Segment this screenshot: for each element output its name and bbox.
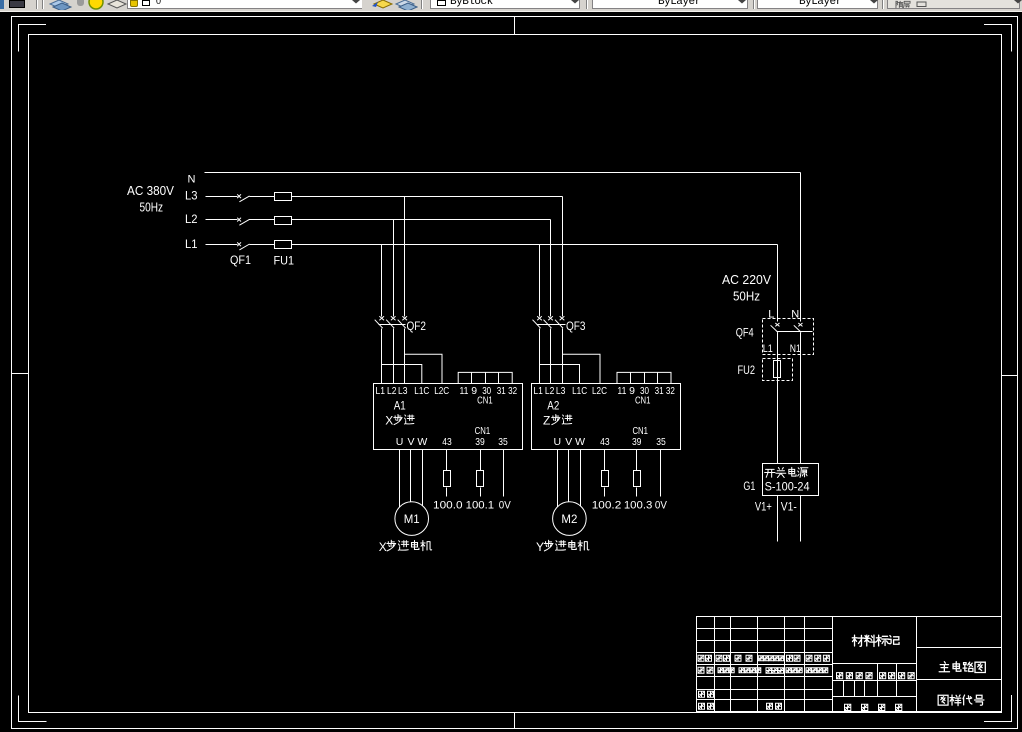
title block small row: 审核 (699, 691, 705, 697)
wire A2 pin 35 (660, 450, 662, 497)
svg-text:U: U (554, 436, 562, 448)
svg-text:M2: M2 (561, 514, 577, 526)
wire tap QF3 pole1 to A2 pin L1C (540, 365, 580, 384)
svg-text:43: 43 (600, 436, 610, 448)
wire L3 drop to QF2 pole 3 (404, 197, 406, 317)
svg-text:100.1: 100.1 (466, 499, 495, 511)
breaker QF3 (3-pole) (537, 316, 542, 320)
svg-text:X: X (385, 414, 393, 428)
svg-text:CN1: CN1 (477, 395, 493, 407)
svg-text:QF3: QF3 (566, 319, 586, 333)
svg-text:39: 39 (475, 436, 485, 448)
svg-text:N: N (188, 174, 196, 186)
wire L1 drop to QF4 (777, 245, 779, 322)
stepper drive A1 box (X axis) (374, 384, 523, 450)
svg-text:W: W (417, 436, 427, 448)
svg-text:FU1: FU1 (274, 254, 295, 268)
title block grid lines (697, 617, 1002, 713)
wire A2 V to motor M2 (568, 450, 570, 513)
svg-text:50Hz: 50Hz (733, 289, 760, 304)
svg-text:31: 31 (655, 385, 664, 397)
svg-text:M1: M1 (404, 514, 420, 526)
wire L2 with breaker QF1 pole and fuse FU1 (206, 219, 238, 221)
breaker QF4 linkage bar (777, 331, 813, 333)
wire L1 with breaker QF1 pole and fuse FU1 (206, 244, 238, 246)
svg-text:L1C: L1C (572, 385, 587, 397)
svg-text:L2C: L2C (434, 385, 449, 397)
centering tick left (12, 373, 29, 375)
wire L3 with breaker QF1 pole and fuse FU1 (206, 196, 238, 198)
svg-text:G1: G1 (743, 481, 755, 493)
svg-text:L2: L2 (387, 385, 397, 397)
svg-text:L1: L1 (376, 385, 386, 397)
title block outline (697, 617, 1002, 712)
svg-text:AC 220V: AC 220V (722, 272, 771, 287)
svg-text:V: V (565, 436, 572, 448)
wire A1 pin 39 with terminal (480, 450, 482, 471)
svg-text:CN1: CN1 (632, 425, 648, 437)
wire QF4 N1 down to G1 (800, 333, 802, 464)
wire tap QF2 pole1 to A1 pin L1C (382, 365, 422, 384)
svg-text:CN1: CN1 (635, 395, 651, 407)
switching power supply G1 box (763, 464, 819, 496)
svg-text:S-100-24: S-100-24 (765, 479, 810, 493)
svg-text:L1: L1 (185, 237, 198, 251)
svg-text:35: 35 (498, 436, 508, 448)
svg-text:L1: L1 (763, 343, 773, 355)
svg-text:32: 32 (666, 385, 675, 397)
svg-text:A1: A1 (394, 400, 406, 412)
title block labels 阶段标记 重量 比例 (837, 673, 843, 679)
wire L3 drop to QF3 pole 3 (562, 197, 564, 317)
svg-text:50Hz: 50Hz (140, 200, 164, 215)
svg-text:11: 11 (460, 385, 469, 397)
wire tap QF3 pole3 to A2 pin L2C (562, 354, 600, 383)
svg-text:QF1: QF1 (230, 253, 251, 267)
corner trim mark bottom-left (19, 696, 47, 722)
fuse FU2 element (774, 361, 781, 378)
svg-text:Y: Y (536, 540, 544, 554)
svg-text:AC 380V: AC 380V (127, 183, 174, 198)
svg-text:0V: 0V (499, 499, 512, 511)
svg-text:QF4: QF4 (736, 326, 754, 340)
svg-text:L1C: L1C (414, 385, 429, 397)
wire A1 U to motor M1 (399, 450, 401, 513)
svg-text:L2C: L2C (592, 385, 607, 397)
title block text 主电路图 (main circuit diagram) (939, 662, 949, 672)
svg-text:31: 31 (497, 385, 506, 397)
svg-text:39: 39 (632, 436, 642, 448)
corner trim mark bottom-right (984, 695, 1012, 722)
centering tick top (514, 17, 516, 35)
title block text 图样代号 (drawing code) (938, 695, 948, 705)
wire tap QF2 pole3 to A1 pin L2C (405, 354, 442, 383)
svg-text:X: X (379, 540, 387, 554)
wire L1 drop to QF3 pole 1 (539, 245, 541, 317)
wire A2 W to motor M2 (580, 450, 582, 513)
svg-text:CN1: CN1 (475, 425, 491, 437)
wire output V1+ (777, 496, 779, 542)
motor M2 (553, 502, 587, 536)
wire output V1- (800, 496, 802, 542)
wire L2 drop to QF2 pole 2 (393, 220, 395, 317)
breaker QF4 pole L (775, 323, 779, 326)
svg-text:100.2: 100.2 (592, 499, 622, 511)
svg-text:100.3: 100.3 (624, 499, 653, 511)
svg-text:11: 11 (617, 385, 626, 397)
svg-text:QF2: QF2 (407, 319, 427, 333)
svg-text:100.0: 100.0 (433, 499, 463, 511)
wire N horizontal (205, 172, 801, 174)
wire L1 drop to QF2 pole 1 (381, 245, 383, 317)
svg-text:L2: L2 (545, 385, 555, 397)
svg-text:U: U (396, 436, 404, 448)
breaker QF4 dashed enclosure (763, 319, 814, 355)
svg-text:35: 35 (656, 436, 666, 448)
breaker QF4 pole N (798, 323, 802, 326)
wire QF4 L1 down through FU2 to G1 (777, 333, 779, 464)
svg-text:L3: L3 (556, 385, 566, 397)
wire A1 V to motor M1 (410, 450, 412, 513)
wire A2 pin 39 with terminal (636, 450, 638, 471)
title block text 材料标记 (material mark) (852, 635, 863, 646)
fuse FU2 dashed enclosure (763, 359, 793, 381)
breaker QF2 (3-pole) (379, 316, 384, 320)
svg-text:32: 32 (508, 385, 517, 397)
wire A2 pin 43 with terminal (604, 450, 606, 471)
svg-text:V1-: V1- (781, 502, 797, 514)
svg-text:N1: N1 (790, 343, 801, 355)
title block small row: 工艺 批准 (699, 703, 705, 709)
wire N drop to QF4 (800, 173, 802, 322)
wire A2 U to motor M2 (557, 450, 559, 513)
title block small row: 设计 (签名) (年月日) 标准化 (签名) (年月日) (698, 667, 828, 673)
svg-text:L3: L3 (398, 385, 408, 397)
svg-text:A2: A2 (547, 400, 559, 412)
wire A1 W to motor M1 (422, 450, 424, 513)
svg-text:43: 43 (442, 436, 452, 448)
wire A1 pin 35 (503, 450, 505, 497)
svg-text:L1: L1 (533, 385, 543, 397)
svg-text:W: W (575, 436, 585, 448)
corner trim mark top-right (984, 25, 1012, 52)
svg-text:Z: Z (543, 414, 550, 428)
motor M1 (395, 502, 429, 536)
svg-text:L2: L2 (185, 212, 198, 226)
corner trim mark top-left (19, 25, 47, 52)
svg-text:0V: 0V (655, 499, 668, 511)
svg-text:V: V (407, 436, 414, 448)
centering tick bottom (514, 713, 516, 729)
wire A1 pin 43 with terminal (446, 450, 448, 471)
svg-text:L3: L3 (185, 189, 198, 203)
wire L2 drop to QF3 pole 2 (550, 220, 552, 317)
centering tick right (1002, 375, 1018, 377)
svg-text:V1+: V1+ (755, 502, 772, 514)
title block small header texts row: 标记 处数 分区 更改文件号 签名 年月日 (698, 655, 829, 661)
svg-text:FU2: FU2 (738, 363, 756, 377)
title block labels 共 张 第 张 (845, 704, 851, 710)
stepper drive A2 box (Z axis) (532, 384, 681, 450)
